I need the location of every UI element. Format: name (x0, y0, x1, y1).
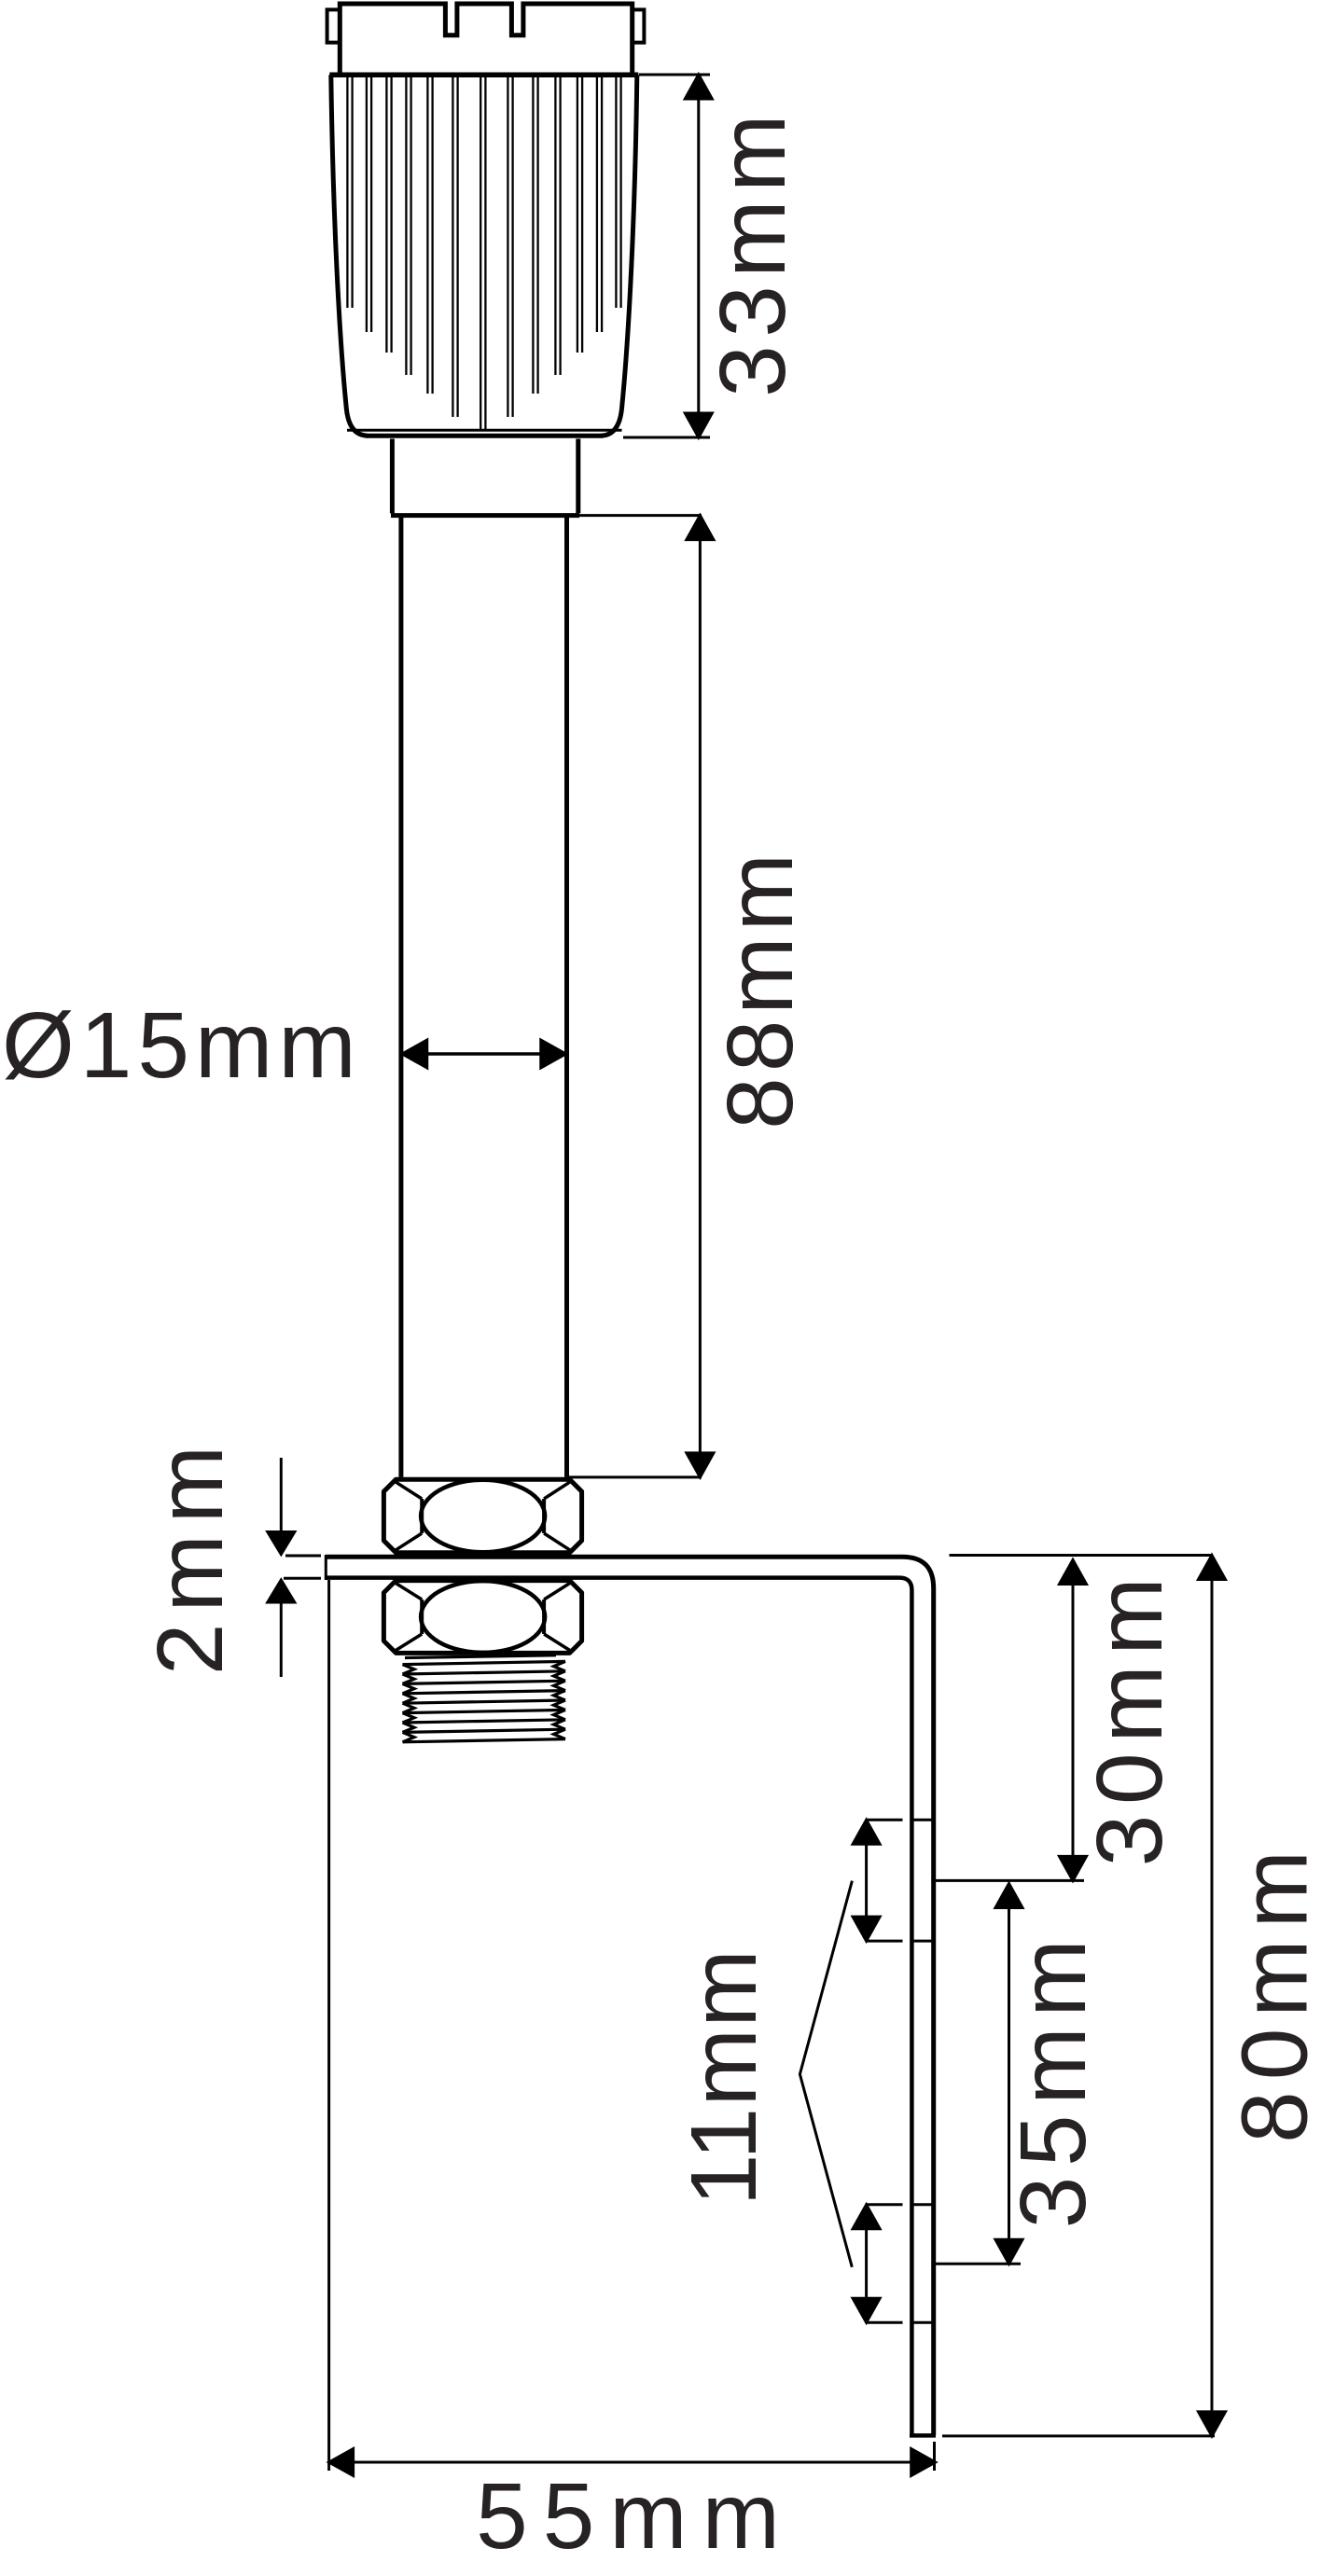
dimension 33mm line and arrows (685, 75, 712, 437)
svg-text:55mm: 55mm (476, 2464, 795, 2569)
dimension 80mm line and arrows (1199, 1556, 1226, 2436)
dimension 35mm line and arrows (995, 1884, 1022, 2264)
dimension 11mm arrows tab 1 (853, 1820, 880, 1941)
svg-text:11mm: 11mm (672, 1948, 776, 2206)
svg-text:2mm: 2mm (138, 1434, 243, 1675)
svg-text:Ø15mm: Ø15mm (2, 993, 362, 1098)
wall tab 2 edge marks (867, 2205, 934, 2322)
svg-text:88mm: 88mm (708, 848, 813, 1129)
dimension 11mm arrows tab 2 (853, 2205, 880, 2322)
svg-text:33mm: 33mm (701, 106, 805, 397)
svg-text:30mm: 30mm (1078, 1568, 1182, 1867)
dimension 55mm extension lines (329, 1580, 935, 2471)
dimension 33mm extension lines (623, 75, 710, 437)
cap right ear tab (633, 9, 645, 42)
neck collar (391, 439, 579, 516)
dimension 35mm extension line (936, 2263, 1021, 2265)
dimension 88mm line and arrows (687, 516, 714, 1477)
leader lines for 11mm (800, 1881, 852, 2267)
wall tab 1 edge marks (867, 1820, 934, 1941)
dimension 30mm line and arrows (1060, 1560, 1087, 1881)
svg-text:80mm: 80mm (1223, 1839, 1321, 2143)
dimension 55mm line and arrows (329, 2449, 936, 2476)
dimension diameter arrow (403, 1041, 566, 1068)
threaded stub (403, 1655, 566, 1742)
dimension 80mm extension line bottom (942, 2434, 1215, 2437)
knurled knob body outline (329, 75, 638, 436)
bracket plate (326, 1555, 936, 2435)
dimension 88mm extension lines (567, 516, 702, 1477)
dimension 2mm arrows (268, 1458, 295, 1677)
cap left ear tab (327, 9, 340, 42)
connector cap top block (340, 4, 632, 75)
dimension 2mm ticks (284, 1556, 321, 1578)
knurl ribs (347, 77, 620, 431)
upper hex nut (383, 1479, 581, 1553)
tube shaft (401, 518, 567, 1477)
svg-text:35mm: 35mm (1001, 1930, 1105, 2229)
lower hex nut (383, 1581, 581, 1654)
dimension 30mm extension lines (936, 1556, 1213, 1881)
